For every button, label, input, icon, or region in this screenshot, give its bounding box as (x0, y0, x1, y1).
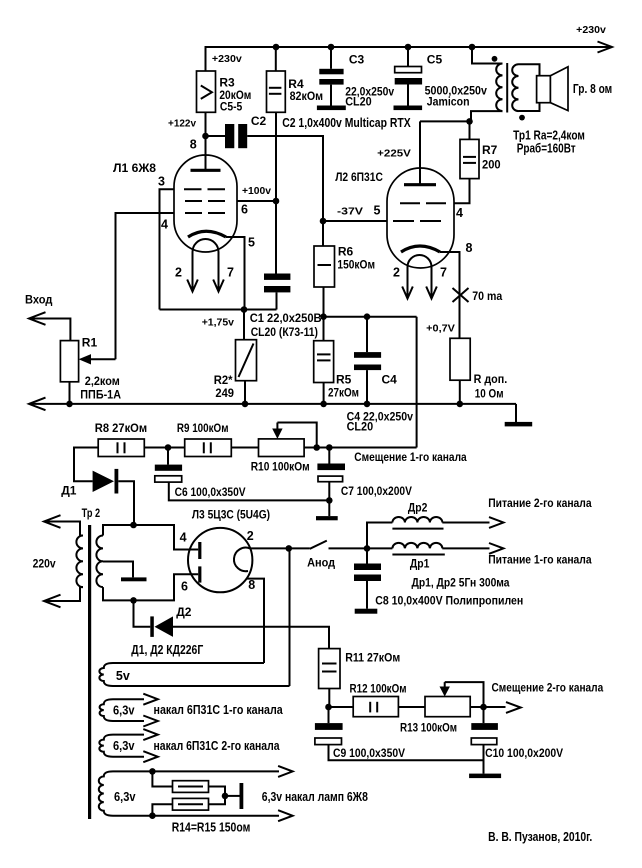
svg-text:Jamicon: Jamicon (427, 95, 470, 109)
svg-text:C9 100,0x350V: C9 100,0x350V (333, 746, 405, 760)
svg-text:Тр 2: Тр 2 (82, 506, 101, 520)
svg-text:+230v: +230v (576, 24, 606, 36)
svg-text:CL20 (К73-11): CL20 (К73-11) (251, 325, 318, 339)
svg-text:R11 27кОм: R11 27кОм (345, 651, 400, 665)
svg-text:R9 100кОм: R9 100кОм (177, 421, 229, 435)
svg-text:6,3v накал ламп 6Ж8: 6,3v накал ламп 6Ж8 (262, 789, 368, 804)
svg-text:R7: R7 (482, 143, 498, 157)
svg-text:27кОм: 27кОм (328, 386, 359, 400)
svg-text:200: 200 (482, 158, 501, 172)
svg-text:8: 8 (466, 241, 473, 255)
svg-text:R1: R1 (82, 336, 98, 350)
svg-text:Л2 6П31С: Л2 6П31С (335, 170, 383, 184)
svg-text:70 ma: 70 ma (472, 289, 502, 303)
svg-text:+122v: +122v (168, 118, 196, 130)
svg-text:6,3v: 6,3v (113, 704, 135, 718)
svg-text:8: 8 (248, 578, 255, 592)
svg-text:Гр. 8 ом: Гр. 8 ом (573, 81, 612, 96)
svg-text:R доп.: R доп. (474, 372, 508, 386)
svg-text:C4: C4 (382, 373, 398, 387)
svg-text:10 Ом: 10 Ом (475, 387, 504, 401)
svg-text:R10 100кОм: R10 100кОм (251, 460, 310, 474)
svg-text:5: 5 (248, 236, 255, 250)
svg-text:150кОм: 150кОм (337, 258, 375, 272)
svg-text:Д1: Д1 (61, 484, 77, 498)
svg-text:C2 1,0x400v Multicap RTX: C2 1,0x400v Multicap RTX (282, 115, 411, 130)
svg-text:Д1, Д2 КД226Г: Д1, Д2 КД226Г (131, 643, 203, 657)
svg-text:CL20: CL20 (345, 95, 372, 109)
svg-text:C2: C2 (251, 114, 267, 128)
svg-text:R8 27кОм: R8 27кОм (95, 421, 147, 435)
svg-text:6,3v: 6,3v (114, 790, 136, 804)
svg-text:Др2: Др2 (408, 501, 428, 515)
svg-text:+225V: +225V (377, 148, 411, 160)
svg-text:C10 100,0x200V: C10 100,0x200V (485, 746, 563, 760)
svg-text:249: 249 (215, 386, 234, 400)
svg-text:Л3 5Ц3С (5U4G): Л3 5Ц3С (5U4G) (192, 508, 270, 522)
svg-text:4: 4 (456, 206, 463, 220)
svg-text:R2*: R2* (214, 373, 233, 387)
svg-text:Л1 6Ж8: Л1 6Ж8 (113, 161, 156, 175)
svg-text:Смещение 2-го канала: Смещение 2-го канала (492, 681, 604, 695)
svg-text:Питание 1-го канала: Питание 1-го канала (488, 553, 592, 567)
svg-text:Питание 2-го канала: Питание 2-го канала (488, 496, 592, 510)
svg-text:накал 6П31С 2-го канала: накал 6П31С 2-го канала (154, 738, 281, 753)
svg-text:Анод: Анод (307, 556, 335, 570)
svg-text:2: 2 (393, 265, 400, 279)
svg-text:В. В. Пузанов, 2010г.: В. В. Пузанов, 2010г. (488, 830, 592, 844)
svg-text:Др1: Др1 (410, 557, 430, 571)
svg-text:7: 7 (440, 265, 447, 279)
svg-text:C6 100,0x350V: C6 100,0x350V (175, 485, 246, 499)
svg-text:Д2: Д2 (176, 605, 192, 619)
svg-text:6: 6 (241, 203, 248, 217)
svg-text:+0,7V: +0,7V (426, 323, 455, 335)
svg-text:82кОм: 82кОм (290, 89, 324, 103)
svg-text:накал 6П31С 1-го канала: накал 6П31С 1-го канала (154, 702, 284, 717)
svg-text:5v: 5v (116, 669, 130, 683)
svg-text:Др1, Др2 5Гн 300ма: Др1, Др2 5Гн 300ма (412, 576, 510, 590)
svg-text:2: 2 (247, 529, 254, 543)
svg-text:CL20: CL20 (347, 420, 374, 434)
svg-text:8: 8 (190, 138, 197, 152)
svg-text:R12 100кОм: R12 100кОм (350, 682, 407, 696)
svg-text:6,3v: 6,3v (113, 739, 135, 753)
svg-text:+230v: +230v (212, 53, 242, 65)
svg-text:R6: R6 (338, 245, 354, 259)
svg-text:220v: 220v (33, 557, 56, 571)
svg-text:+100v: +100v (242, 185, 271, 197)
svg-text:+1,75v: +1,75v (202, 317, 234, 329)
svg-text:7: 7 (227, 266, 234, 280)
svg-text:R14=R15 150ом: R14=R15 150ом (172, 819, 251, 834)
svg-text:6: 6 (181, 580, 188, 594)
svg-text:R5: R5 (336, 373, 352, 387)
svg-text:C1 22,0x250В: C1 22,0x250В (250, 311, 322, 325)
svg-text:Вход: Вход (25, 293, 53, 307)
svg-text:C5-5: C5-5 (220, 100, 243, 114)
svg-text:Смещение 1-го канала: Смещение 1-го канала (354, 450, 467, 464)
svg-text:Рраб=160Вт: Рраб=160Вт (517, 141, 576, 156)
svg-text:3: 3 (158, 175, 165, 189)
svg-text:4: 4 (161, 218, 168, 232)
svg-text:4: 4 (180, 531, 187, 545)
svg-text:R13 100кОм: R13 100кОм (400, 721, 457, 735)
svg-text:C5: C5 (427, 53, 443, 67)
svg-text:ППБ-1А: ППБ-1А (80, 388, 121, 402)
svg-text:2,2ком: 2,2ком (85, 374, 120, 388)
svg-text:C8 10,0x400V Полипропилен: C8 10,0x400V Полипропилен (375, 593, 523, 607)
svg-text:-37V: -37V (337, 206, 363, 218)
svg-text:C7 100,0x200V: C7 100,0x200V (341, 484, 412, 498)
svg-text:C3: C3 (349, 53, 365, 67)
svg-text:5: 5 (374, 204, 381, 218)
svg-text:2: 2 (175, 266, 182, 280)
